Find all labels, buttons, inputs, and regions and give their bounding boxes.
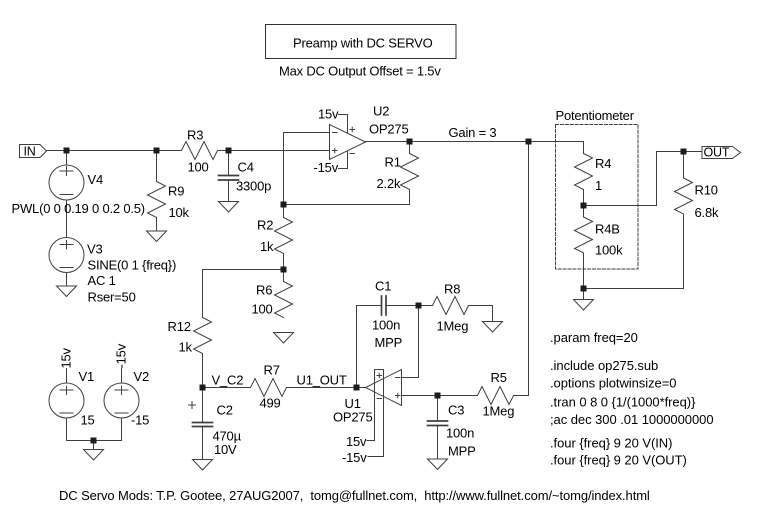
wire V4 top lead	[66, 151, 68, 166]
junction feedback node	[526, 139, 532, 145]
wire IN row left	[47, 150, 182, 152]
junction inv node	[281, 202, 287, 208]
svg-text:-15: -15	[131, 413, 149, 428]
ground below potentiometer	[574, 300, 594, 311]
svg-text:R4: R4	[595, 156, 611, 171]
svg-text:AC 1: AC 1	[88, 273, 116, 288]
title box	[266, 25, 457, 59]
op-amp U2 V- pin	[339, 151, 348, 169]
resistor R1	[401, 154, 419, 190]
ground below R8	[483, 322, 503, 333]
svg-text:15v: 15v	[346, 434, 367, 449]
wire C4 top lead	[228, 151, 230, 176]
svg-text:V3: V3	[87, 242, 103, 257]
wire R2 bottom to R6 top	[283, 254, 285, 282]
junction V1 V2	[91, 438, 97, 444]
wire R10 top lead	[683, 152, 685, 179]
capacitor C3 plates	[428, 421, 448, 426]
ground below V3	[57, 286, 77, 297]
wire C1 left lead	[357, 305, 382, 307]
svg-text:R7: R7	[264, 363, 280, 378]
svg-text:.include op275.sub: .include op275.sub	[550, 358, 658, 373]
wire C2 top lead	[202, 388, 204, 423]
resistor R10	[675, 178, 693, 214]
svg-text:V1: V1	[79, 369, 95, 384]
op-amp U1 V+ rail	[367, 370, 375, 441]
svg-text:-15v: -15v	[114, 343, 129, 368]
junction C3 R5	[435, 393, 441, 399]
svg-text:R3: R3	[187, 128, 203, 143]
svg-text:MPP: MPP	[448, 444, 476, 459]
junction C1 R8	[416, 303, 422, 309]
wire R4 to R4B	[583, 190, 585, 218]
wire U1 noninv row to R5	[402, 395, 478, 397]
svg-text:Max DC Output Offset = 1.5v: Max DC Output Offset = 1.5v	[279, 64, 441, 79]
resistor R3	[182, 142, 218, 160]
junction pot bottom	[581, 286, 587, 292]
svg-text:6.8k: 6.8k	[695, 205, 719, 220]
svg-text:R8: R8	[444, 282, 460, 297]
port OUT	[702, 147, 741, 159]
junction V_C2	[200, 385, 206, 391]
svg-text:R5: R5	[491, 370, 507, 385]
svg-text:.four {freq} 9 20 V(IN): .four {freq} 9 20 V(IN)	[550, 436, 672, 451]
svg-text:PWL(0 0 0.19 0 0.2 0.5): PWL(0 0 0.19 0 0.2 0.5)	[12, 201, 145, 216]
svg-text:Preamp with DC SERVO: Preamp with DC SERVO	[293, 36, 433, 51]
capacitor C2 plus polarity mark	[189, 402, 196, 409]
junction R1 top	[407, 139, 413, 145]
svg-text:.options plotwinsize=0: .options plotwinsize=0	[550, 376, 676, 391]
wire U2 output row	[366, 141, 584, 143]
ground below V1 V2	[84, 450, 104, 461]
svg-text:C4: C4	[238, 160, 254, 175]
wire V1 bottom lead	[66, 418, 68, 441]
junction C4 node	[226, 148, 232, 154]
svg-text:OUT: OUT	[704, 146, 730, 160]
capacitor C1 plates	[382, 296, 387, 315]
wire IN row right	[218, 150, 330, 152]
resistor R12	[194, 318, 212, 354]
op-amp U2 V+ pin	[339, 115, 348, 134]
resistor R8	[433, 297, 469, 315]
svg-text:R4B: R4B	[595, 222, 620, 237]
wire feedback R5 to output node	[528, 142, 530, 396]
wire to OUT port	[657, 151, 703, 153]
svg-text:1k: 1k	[260, 239, 274, 254]
svg-text:1: 1	[595, 178, 602, 193]
wire R4 top lead	[583, 142, 585, 154]
svg-text:1k: 1k	[179, 340, 193, 355]
wire V2 bottom lead	[121, 418, 123, 441]
svg-text:V2: V2	[134, 369, 150, 384]
wire R8 right lead	[469, 305, 493, 307]
resistor R4B	[575, 217, 593, 253]
svg-text:V4: V4	[88, 172, 104, 187]
capacitor C4 plates	[219, 176, 239, 181]
svg-text:R10: R10	[695, 183, 718, 198]
junction OUT node	[681, 149, 687, 155]
svg-text:R6: R6	[256, 283, 272, 298]
svg-text:-15v: -15v	[314, 160, 339, 175]
resistor R4	[575, 154, 593, 190]
svg-text:Rser=50: Rser=50	[88, 290, 136, 305]
wire C3 top lead	[437, 396, 439, 422]
op-amp U1 noninv mark	[396, 393, 401, 398]
wire V4 to V3	[66, 200, 68, 238]
svg-text:;ac dec 300 .01 1000000000: ;ac dec 300 .01 1000000000	[550, 412, 714, 427]
svg-text:R9: R9	[168, 184, 184, 199]
junction R9 node	[154, 148, 160, 154]
op-amp U2 V+ mark	[350, 127, 355, 132]
op-amp U2 V- mark	[350, 153, 355, 155]
wire V3 to ground	[66, 273, 68, 287]
svg-text:499: 499	[260, 396, 281, 411]
resistor R9	[148, 182, 166, 218]
op-amp U1 inv mark	[396, 377, 401, 379]
svg-text:15v: 15v	[59, 347, 74, 368]
wire R12 bottom lead	[202, 354, 204, 388]
svg-text:100n: 100n	[372, 318, 400, 333]
wire R1 bottom to inv node	[284, 204, 410, 206]
ground below R9	[147, 231, 167, 242]
wire R9 top lead	[156, 151, 158, 182]
wire C1 right lead	[386, 305, 419, 307]
op-amp U1	[366, 370, 402, 406]
wire R10 bottom lead	[683, 214, 685, 289]
voltage source V4	[49, 165, 84, 200]
op-amp U2 inv mark	[333, 132, 338, 134]
wire R9 bottom lead	[156, 218, 158, 232]
ground below C4	[219, 202, 239, 213]
svg-text:C2: C2	[217, 403, 233, 418]
svg-text:Potentiometer: Potentiometer	[556, 108, 635, 123]
ground below C2	[193, 460, 213, 471]
svg-text:100n: 100n	[446, 426, 474, 441]
wire junction to R12 branch horizontal	[203, 269, 284, 271]
svg-text:100: 100	[188, 160, 209, 175]
svg-text:1Meg: 1Meg	[483, 404, 515, 419]
op-amp U2	[330, 125, 366, 160]
svg-text:R12: R12	[168, 319, 191, 334]
wire C1 left leg vertical	[356, 306, 358, 388]
wire V2 top stub	[121, 369, 123, 384]
wire R8 left lead	[419, 305, 433, 307]
resistor R7	[251, 379, 287, 397]
wire inv input U2	[284, 132, 330, 134]
capacitor C2 plates	[193, 423, 213, 427]
svg-text:100k: 100k	[595, 243, 623, 258]
wire U1 inv input	[402, 377, 419, 379]
svg-text:R2: R2	[257, 218, 273, 233]
wire R7 to U1 output	[287, 387, 366, 389]
svg-text:R1: R1	[385, 155, 401, 170]
svg-text:IN: IN	[24, 145, 36, 159]
voltage source V3	[49, 238, 84, 273]
svg-text:C3: C3	[448, 403, 464, 418]
wire R10 bottom to pot bottom	[584, 288, 684, 290]
svg-text:SINE(0 1 {freq}): SINE(0 1 {freq})	[88, 258, 177, 273]
resistor R6	[275, 282, 293, 318]
svg-text:3300p: 3300p	[236, 179, 271, 194]
wire R1 bottom lead	[409, 190, 411, 205]
junction U1_OUT	[354, 385, 360, 391]
svg-text:DC Servo Mods: T.P. Gootee, 27: DC Servo Mods: T.P. Gootee, 27AUG2007, t…	[59, 488, 650, 503]
wire C3 bottom lead	[437, 426, 439, 460]
resistor R5	[478, 387, 514, 405]
svg-text:.four {freq} 9 20 V(OUT): .four {freq} 9 20 V(OUT)	[550, 453, 687, 468]
wire R12 top lead	[202, 270, 204, 318]
svg-text:-15v: -15v	[342, 450, 367, 465]
wire V1V2 join	[67, 440, 122, 442]
svg-text:15v: 15v	[318, 107, 339, 122]
resistor R2	[275, 218, 293, 254]
svg-text:100: 100	[252, 302, 273, 317]
svg-text:2.2k: 2.2k	[377, 176, 401, 191]
svg-text:U2: U2	[373, 104, 389, 119]
wire R8 to ground	[492, 306, 494, 322]
wire pot wiper horizontal	[584, 205, 657, 207]
svg-text:10k: 10k	[169, 205, 190, 220]
svg-text:15: 15	[81, 413, 95, 428]
wire V1 top stub	[66, 369, 68, 384]
wire C1 node down to U1 inv	[418, 306, 420, 378]
svg-text:OP275: OP275	[333, 410, 372, 425]
svg-text:U1_OUT: U1_OUT	[297, 373, 347, 388]
wire C4 bottom lead	[228, 180, 230, 202]
op-amp U1 V+ mark	[377, 373, 382, 378]
svg-text:MPP: MPP	[375, 335, 403, 350]
voltage source V1	[49, 383, 84, 418]
junction R2 R6 R12	[281, 267, 287, 273]
svg-text:OP275: OP275	[369, 122, 408, 137]
svg-text:C1: C1	[375, 279, 391, 294]
wire join to ground	[93, 441, 95, 450]
svg-text:.tran 0 8 0 {1/(1000*freq)}: .tran 0 8 0 {1/(1000*freq)}	[550, 395, 696, 410]
wire feedback vertical to R2	[283, 133, 285, 218]
wire R4B bottom lead	[583, 253, 585, 300]
ground below C3	[428, 459, 448, 470]
ground below R6	[274, 333, 294, 344]
potentiometer dashed box	[556, 125, 639, 270]
voltage source V2	[104, 383, 139, 418]
wire C2 bottom lead	[202, 427, 204, 460]
port IN	[20, 145, 47, 158]
op-amp U2 noninv mark	[333, 148, 338, 153]
junction IN node	[64, 148, 70, 154]
wire V_C2 to R7	[203, 387, 251, 389]
wire R5 right lead	[514, 395, 529, 397]
svg-text:Gain = 3: Gain = 3	[449, 125, 497, 140]
svg-text:V_C2: V_C2	[212, 373, 244, 388]
svg-text:.param freq=20: .param freq=20	[550, 330, 638, 345]
op-amp U1 V- mark	[377, 398, 382, 400]
svg-text:10V: 10V	[214, 442, 237, 457]
wire wiper vertical up	[656, 152, 658, 206]
junction pot wiper	[581, 203, 587, 209]
svg-text:1Meg: 1Meg	[437, 319, 469, 334]
op-amp U1 V- rail	[368, 370, 384, 457]
wire R1 top lead	[409, 142, 411, 154]
